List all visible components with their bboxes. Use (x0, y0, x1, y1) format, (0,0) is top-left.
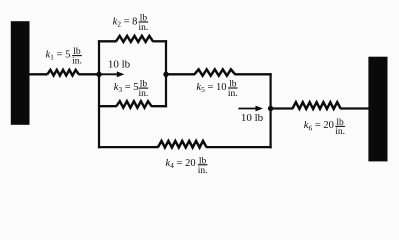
wire: spring k6 to right wall (340, 107, 368, 109)
svg-text:10 lb: 10 lb (108, 59, 131, 71)
svg-text:in.: in. (228, 89, 238, 99)
wire: box bottom right segment (151, 105, 167, 107)
wire: box top right segment (153, 40, 168, 42)
svg-text:k6 = 20: k6 = 20 (304, 120, 334, 132)
left wall (11, 21, 30, 125)
svg-text:in.: in. (198, 166, 208, 176)
wire: spring k4 to right bus bottom (206, 146, 272, 148)
force arrow 10 lb at node C (238, 108, 256, 110)
wire: node C to spring k6 (271, 107, 293, 109)
wire: box right vertical edge (165, 40, 167, 107)
wire: right vertical bus (270, 73, 272, 148)
spring k1 (47, 70, 79, 76)
spring k2 (116, 36, 153, 42)
wire: bottom left segment to spring k4 (98, 146, 159, 148)
svg-text:10 lb: 10 lb (241, 112, 264, 124)
node C junction dot (268, 106, 273, 111)
wire: box bottom left segment (98, 105, 117, 107)
svg-text:in.: in. (72, 56, 82, 66)
wire: spring k5 to right bus (235, 73, 272, 75)
force arrow 10 lb at node A (100, 73, 118, 75)
svg-text:k2 = 8: k2 = 8 (113, 16, 138, 28)
svg-text:k1 = 5: k1 = 5 (46, 49, 71, 61)
node B junction dot (163, 72, 168, 77)
svg-text:in.: in. (335, 127, 345, 137)
wire: left wall to spring k1 (30, 73, 48, 75)
spring k3 (116, 101, 151, 108)
node A junction dot (96, 72, 101, 77)
spring k6 (293, 102, 341, 109)
right wall (368, 57, 387, 162)
spring k4 (158, 141, 207, 148)
wire: spring k1 to node A (79, 73, 100, 75)
svg-text:k5 = 10: k5 = 10 (196, 82, 226, 94)
wire: left vertical bus at node A (98, 40, 100, 148)
spring k5 (195, 69, 236, 75)
wire: box top left segment (98, 40, 117, 42)
svg-text:in.: in. (139, 89, 149, 99)
wire: node B to spring k5 (166, 73, 195, 75)
svg-text:k4 = 20: k4 = 20 (166, 158, 196, 170)
svg-text:in.: in. (139, 23, 149, 33)
svg-text:k3 = 5: k3 = 5 (114, 82, 139, 94)
